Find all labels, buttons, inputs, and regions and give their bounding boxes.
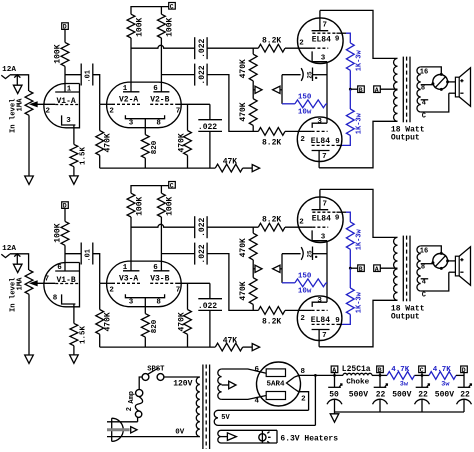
svg-text:.022: .022 — [198, 38, 207, 57]
resistor 470K lower EL84 grid (ch1) — [239, 99, 257, 132]
wire V2-B grid (ch1) — [176, 103, 210, 105]
choke L25C1a — [342, 365, 372, 387]
svg-text:7: 7 — [322, 153, 327, 161]
transformer power core — [203, 365, 210, 450]
svg-text:4: 4 — [422, 100, 426, 108]
transformer HT secondary — [218, 369, 222, 399]
svg-text:100K: 100K — [135, 196, 144, 215]
capacitor 25 cathode bypass (ch2) — [282, 247, 327, 261]
wire V3-B grid (ch2) — [176, 282, 210, 284]
switch SPST — [142, 365, 165, 380]
svg-text:V1-B: V1-B — [57, 276, 76, 285]
resistor 1.5K V1-A cathode (ch1) — [70, 125, 87, 176]
svg-text:1: 1 — [67, 85, 72, 93]
svg-text:Choke: Choke — [346, 378, 369, 386]
svg-text:9: 9 — [335, 215, 340, 223]
svg-text:10w: 10w — [298, 288, 312, 296]
svg-text:3: 3 — [129, 119, 134, 127]
svg-text:.022: .022 — [198, 65, 207, 84]
wire lower screen (ch2) — [337, 323, 343, 325]
svg-text:.01: .01 — [84, 249, 92, 262]
svg-text:100K: 100K — [135, 17, 144, 36]
wire HT top to 5AR4 pin 6 — [222, 366, 267, 374]
wire cathode bus (ch2) — [326, 241, 328, 303]
wire upper plate to transformer (ch2) — [320, 189, 398, 237]
svg-text:2: 2 — [300, 136, 305, 144]
transformer output primary (ch2) — [394, 237, 398, 300]
svg-text:500V: 500V — [392, 390, 411, 399]
wire .01 to V3-A grid (ch2) — [93, 254, 100, 284]
svg-text:6: 6 — [57, 264, 62, 272]
wire to lower grid (ch2) — [207, 254, 258, 311]
wire lower plate to transformer (ch1) — [319, 121, 397, 168]
svg-text:470K: 470K — [239, 238, 248, 257]
svg-text:7: 7 — [45, 276, 50, 284]
wire to upper grid (ch2) — [207, 226, 258, 228]
svg-text:150: 150 — [298, 273, 312, 281]
resistor 1.5K V1-B cathode (ch2) — [70, 304, 87, 355]
node B (ch2) — [358, 265, 365, 273]
resistor 1K-3W lower screen (ch2) — [342, 268, 363, 324]
resistor 100K V1-A plate (ch1) — [53, 42, 69, 66]
ground arrow pair (ch2) — [253, 265, 282, 272]
wire filter ground rail — [335, 412, 465, 414]
node 12A input label (ch1) — [2, 66, 16, 74]
speaker (ch2) — [449, 247, 471, 285]
svg-text:2: 2 — [299, 219, 304, 227]
node A (ch1) — [374, 86, 381, 94]
resistor 820 V3-A cathode (ch2) — [141, 298, 159, 347]
svg-text:16: 16 — [420, 68, 428, 76]
wire plate A to upper coupling cap (hop over) (ch1) — [131, 45, 195, 48]
wire 4 ohm tap (ch2) — [421, 279, 429, 287]
svg-text:3: 3 — [317, 297, 322, 305]
svg-text:25: 25 — [306, 71, 313, 79]
resistor 150 10W cathode (ch2) — [282, 254, 327, 296]
svg-text:EL84: EL84 — [311, 137, 330, 146]
transformer core (ch1) — [403, 57, 410, 123]
capacitor 22 filter D — [457, 384, 472, 412]
pentode EL84 upper (ch1) — [298, 10, 344, 63]
svg-text:470K: 470K — [104, 133, 113, 152]
capacitor .022 lower coupling (ch1) — [195, 64, 207, 86]
wire plate A to upper coupling cap (hop over) (ch2) — [131, 224, 195, 227]
wire plate column (ch1) — [65, 66, 81, 92]
svg-text:1: 1 — [123, 264, 128, 272]
resistor 47K feedback (ch2) — [215, 336, 252, 351]
svg-text:Output: Output — [391, 313, 420, 322]
resistor 150 10W cathode (ch1) — [282, 75, 327, 117]
svg-text:2: 2 — [109, 286, 114, 294]
ground (supply) — [330, 414, 339, 422]
resistor 470K lower EL84 grid (ch2) — [239, 278, 257, 311]
svg-text:1K-3w: 1K-3w — [355, 228, 363, 250]
svg-text:2: 2 — [126, 407, 134, 411]
feedback arrow (ch2) — [252, 344, 259, 351]
node A (ch2) — [374, 265, 381, 273]
resistor 4.7K 3W first — [372, 366, 429, 389]
svg-text:500V: 500V — [435, 390, 454, 399]
wire B+ rail — [299, 374, 343, 377]
capacitor 22 500V filter C — [415, 384, 455, 412]
wire (ch2) — [64, 208, 66, 221]
node A (supply) — [331, 366, 338, 387]
ground arrow at input (ch1) — [13, 75, 22, 94]
feedback arrow (ch1) — [252, 165, 259, 172]
wire node C to plate resistors (ch2) — [131, 186, 169, 194]
svg-text:V2-A: V2-A — [119, 95, 138, 104]
svg-text:.022: .022 — [198, 302, 217, 311]
svg-text:9: 9 — [335, 36, 340, 44]
svg-text:EL84: EL84 — [312, 35, 331, 44]
svg-text:22: 22 — [460, 390, 470, 399]
svg-text:7: 7 — [323, 200, 328, 208]
svg-text:1K-3w: 1K-3w — [355, 49, 363, 71]
wire lower plate to transformer (ch2) — [319, 300, 397, 347]
transformer 6.3V winding — [218, 430, 277, 443]
svg-text:C: C — [170, 3, 174, 10]
svg-text:.022: .022 — [198, 123, 217, 132]
svg-text:470K: 470K — [178, 133, 187, 152]
wire cathode bus (ch1) — [326, 62, 328, 123]
svg-text:2: 2 — [46, 107, 51, 115]
wire (ch1) — [64, 29, 66, 42]
svg-text:820: 820 — [151, 140, 159, 154]
resistor 100K V3-B plate (ch2) — [158, 193, 175, 217]
wire screen supply to node B (ch2) — [349, 267, 358, 270]
svg-text:8.2K: 8.2K — [262, 317, 281, 326]
resistor 1K-3W upper screen (ch2) — [346, 212, 363, 268]
svg-text:L25C1a: L25C1a — [342, 365, 371, 374]
text 18 Watt Output (ch1) — [391, 126, 425, 143]
capacitor .01 coupling (ch1) — [81, 64, 93, 86]
node C (ch1) — [169, 3, 176, 11]
svg-text:9: 9 — [335, 317, 340, 325]
wire 16 ohm tap (ch1) — [420, 67, 442, 77]
svg-text:1K-3w: 1K-3w — [355, 291, 363, 313]
svg-text:.022: .022 — [198, 244, 207, 263]
svg-text:470K: 470K — [239, 102, 248, 121]
transformer output secondary (ch2) — [417, 246, 421, 291]
svg-text:9: 9 — [335, 138, 340, 146]
capacitor .022 V2-B grid (ch1) — [198, 104, 222, 168]
pentode EL84 upper (ch2) — [298, 189, 344, 242]
wire 5AR4 pin 2 to 5V winding — [299, 392, 309, 411]
svg-text:B: B — [359, 266, 363, 273]
svg-text:470K: 470K — [178, 312, 187, 331]
ground (ch1) — [70, 176, 79, 184]
svg-text:7: 7 — [323, 21, 328, 29]
svg-text:V3-A: V3-A — [119, 274, 138, 283]
wire V3-A plate column (ch2) — [130, 217, 132, 271]
svg-text:470K: 470K — [104, 312, 113, 331]
svg-text:25: 25 — [306, 250, 313, 258]
svg-text:2: 2 — [301, 396, 306, 404]
svg-text:C: C — [422, 292, 426, 300]
resistor 1K-3W lower screen (ch1) — [342, 89, 363, 145]
capacitor .022 upper coupling (ch2) — [195, 216, 207, 238]
potentiometer In level 1MA (ch2) — [10, 270, 37, 312]
output jack (ch2) — [431, 252, 455, 270]
wire upper screen (ch1) — [337, 32, 347, 34]
pentode EL84 lower (ch1) — [297, 117, 342, 168]
text 6.3V Heaters — [280, 434, 338, 443]
transformer power primary — [173, 377, 200, 437]
resistor 47K feedback (ch1) — [215, 157, 252, 172]
resistor 4.7K 3W second — [429, 366, 464, 389]
svg-text:470K: 470K — [239, 59, 248, 78]
svg-text:12A: 12A — [2, 245, 16, 253]
svg-text:3: 3 — [317, 118, 322, 126]
output jack (ch1) — [431, 73, 455, 91]
svg-text:C: C — [422, 113, 426, 121]
wire node A to transformer center tap (ch1) — [380, 88, 397, 90]
HT center tap ground arrow — [222, 381, 236, 389]
svg-text:V2-B: V2-B — [150, 95, 169, 104]
resistor 100K V2-B plate (ch1) — [158, 14, 175, 38]
capacitor .022 lower coupling (ch2) — [195, 243, 207, 265]
transformer 5V winding — [214, 375, 315, 425]
svg-text:3w: 3w — [400, 381, 409, 389]
6.3V center tap ground arrow — [227, 433, 236, 441]
wire V2-A plate column (ch1) — [130, 38, 132, 92]
svg-text:1K-3w: 1K-3w — [355, 112, 363, 134]
svg-text:22: 22 — [418, 390, 428, 399]
svg-text:12A: 12A — [2, 66, 16, 74]
svg-text:3: 3 — [66, 117, 71, 125]
capacitor .01 coupling (ch2) — [81, 243, 93, 265]
svg-text:4: 4 — [422, 279, 426, 287]
wire node A to transformer center tap (ch2) — [380, 267, 397, 269]
transformer output primary (ch1) — [394, 58, 398, 121]
AC plug — [107, 418, 200, 441]
svg-text:8: 8 — [421, 84, 425, 92]
svg-text:100K: 100K — [53, 44, 62, 63]
svg-text:C: C — [170, 182, 174, 189]
svg-text:5AR4: 5AR4 — [267, 380, 286, 388]
potentiometer In level 1MA (ch1) — [10, 91, 37, 133]
resistor 470K upper EL84 grid (ch2) — [239, 227, 257, 278]
svg-text:6.3V Heaters: 6.3V Heaters — [280, 434, 338, 443]
svg-text:8: 8 — [156, 119, 161, 127]
svg-text:2: 2 — [300, 315, 305, 323]
svg-text:1.5K: 1.5K — [79, 146, 87, 165]
wire to lower grid (ch1) — [207, 75, 258, 132]
svg-text:100K: 100K — [166, 196, 175, 215]
resistor 8.2K upper grid stopper (ch2) — [258, 216, 312, 232]
svg-text:6: 6 — [153, 85, 158, 93]
node C (supply) — [419, 366, 426, 387]
node D (ch2) — [62, 202, 69, 210]
svg-text:1.5K: 1.5K — [79, 325, 87, 344]
svg-text:3: 3 — [321, 55, 326, 63]
wire pot to ground (ch1) — [28, 115, 30, 176]
svg-text:.022: .022 — [198, 217, 207, 236]
wire pot wiper to V1-A grid (ch1) — [37, 103, 55, 105]
rectifier 5AR4 — [257, 362, 307, 406]
node D (supply) — [461, 366, 468, 387]
wire input to pot (ch2) — [10, 254, 29, 270]
pentode EL84 lower (ch2) — [297, 296, 342, 347]
wire .01 to V2-A grid (ch1) — [93, 75, 100, 105]
svg-text:8.2K: 8.2K — [262, 138, 281, 147]
wire upper screen (ch2) — [337, 211, 347, 213]
svg-text:0V: 0V — [175, 429, 185, 437]
wire V2-B plate column (ch1) — [161, 38, 194, 92]
svg-text:A: A — [375, 87, 379, 94]
node 12A input label (ch2) — [2, 245, 16, 253]
wire V3-B plate column (ch2) — [161, 217, 194, 271]
text 18 Watt Output (ch2) — [391, 305, 425, 322]
svg-text:820: 820 — [151, 319, 159, 333]
resistor 1K-3W upper screen (ch1) — [346, 33, 363, 89]
node D (ch1) — [62, 23, 69, 31]
wire fuse to switch — [139, 377, 142, 389]
wire C tap (ch1) — [421, 93, 449, 120]
svg-text:V3-B: V3-B — [150, 274, 169, 283]
svg-text:7: 7 — [176, 286, 181, 294]
transformer output secondary (ch1) — [417, 67, 421, 112]
svg-text:7: 7 — [176, 107, 181, 115]
wire HT bottom to 5AR4 pin 4 — [222, 396, 267, 406]
svg-text:16: 16 — [420, 247, 428, 255]
resistor 470K V3-B grid (ch2) — [178, 283, 192, 347]
ground (ch2) — [70, 355, 79, 363]
dual triode V3-A/V3-B (ch2) — [107, 261, 182, 307]
svg-text:5V: 5V — [221, 414, 230, 422]
triode V1-B (ch2) — [44, 263, 80, 307]
wire grid (ch2) — [100, 282, 112, 284]
svg-text:8: 8 — [421, 263, 425, 271]
resistor 8.2K lower grid stopper (ch2) — [258, 307, 311, 327]
svg-text:V1-A: V1-A — [57, 97, 76, 106]
wire pot wiper to V1-B grid (ch2) — [37, 282, 55, 284]
wire 8 ohm tap (ch2) — [421, 263, 433, 271]
svg-text:2: 2 — [109, 107, 114, 115]
wire pot to ground (ch2) — [28, 294, 30, 355]
wire node C to plate resistors (ch1) — [131, 7, 169, 15]
dual triode V2-A/V2-B (ch1) — [107, 82, 182, 128]
resistor 820 V2-A cathode (ch1) — [141, 119, 159, 168]
svg-text:150: 150 — [298, 94, 312, 102]
wire ground bus (ch2) — [100, 346, 216, 348]
resistor 470K upper EL84 grid (ch1) — [239, 48, 257, 98]
input jack (ch1) — [1, 75, 9, 78]
wire 8 ohm tap (ch1) — [421, 84, 433, 92]
wire 4 ohm tap (ch1) — [421, 100, 429, 108]
resistor 8.2K upper grid stopper (ch1) — [258, 37, 312, 53]
svg-text:4: 4 — [255, 397, 260, 405]
svg-text:3: 3 — [321, 234, 326, 242]
ground arrow pair (ch1) — [253, 86, 282, 93]
wire to upper grid (ch1) — [207, 47, 258, 49]
svg-text:Amp: Amp — [128, 391, 136, 404]
node B (supply) — [377, 366, 384, 387]
svg-text:8: 8 — [53, 295, 58, 303]
svg-text:120V: 120V — [173, 379, 192, 388]
svg-text:6: 6 — [153, 264, 158, 272]
svg-text:EL84: EL84 — [312, 214, 331, 223]
node B (ch1) — [358, 86, 365, 94]
ground (ch2) — [25, 355, 34, 363]
wire ground bus (ch1) — [100, 167, 216, 169]
svg-text:50: 50 — [329, 390, 339, 399]
resistor 8.2K lower grid stopper (ch1) — [258, 128, 311, 148]
svg-text:8: 8 — [156, 298, 161, 306]
ground (ch1) — [25, 176, 34, 184]
svg-text:1: 1 — [123, 85, 128, 93]
fuse 2 Amp — [126, 389, 143, 421]
transformer core (ch2) — [403, 236, 410, 302]
capacitor .022 upper coupling (ch1) — [195, 37, 207, 59]
resistor 100K V3-A plate (ch2) — [127, 193, 144, 217]
wire lower screen (ch1) — [337, 144, 343, 146]
ground arrow at input (ch2) — [13, 254, 22, 273]
resistor 470K V2-B grid (ch1) — [178, 104, 192, 168]
resistor 100K V1-B plate (ch2) — [53, 221, 69, 245]
wire upper plate to transformer (ch1) — [320, 10, 398, 58]
speaker (ch1) — [449, 68, 471, 107]
svg-text:22: 22 — [376, 390, 386, 399]
svg-text:B: B — [359, 87, 363, 94]
capacitor 22 500V filter B — [373, 384, 412, 412]
resistor 470K V2-A grid (ch1) — [96, 104, 113, 168]
svg-text:10w: 10w — [298, 109, 312, 117]
svg-text:1MA: 1MA — [17, 277, 25, 291]
wire plate column (ch2) — [65, 245, 81, 271]
svg-text:.01: .01 — [84, 70, 92, 83]
svg-text:100K: 100K — [166, 17, 175, 36]
svg-text:SPST: SPST — [147, 365, 165, 373]
input jack (ch2) — [1, 254, 9, 257]
node C (ch2) — [169, 182, 176, 190]
wire C tap (ch2) — [421, 272, 449, 299]
resistor 470K V3-A grid (ch2) — [96, 283, 113, 347]
svg-text:Output: Output — [391, 134, 420, 143]
svg-text:EL84: EL84 — [311, 316, 330, 325]
resistor 100K V2-A plate (ch1) — [127, 14, 144, 38]
svg-text:470K: 470K — [239, 281, 248, 300]
svg-text:500V: 500V — [349, 390, 368, 399]
svg-text:3: 3 — [129, 298, 134, 306]
svg-text:3w: 3w — [441, 381, 450, 389]
wire switch to transformer — [164, 376, 200, 378]
svg-text:1MA: 1MA — [17, 98, 25, 112]
pilot lamp — [259, 430, 271, 443]
triode V1-A (ch1) — [44, 83, 80, 127]
wire input to pot (ch1) — [10, 75, 29, 91]
wire 16 ohm tap (ch2) — [420, 246, 442, 256]
capacitor .022 V3-B grid (ch2) — [198, 283, 222, 347]
wire grid (ch1) — [100, 103, 112, 105]
svg-text:2: 2 — [299, 40, 304, 48]
svg-text:100K: 100K — [53, 223, 62, 242]
svg-text:7: 7 — [322, 332, 327, 340]
svg-text:A: A — [375, 266, 379, 273]
capacitor 25 cathode bypass (ch1) — [282, 68, 327, 82]
wire screen supply to node B (ch1) — [349, 88, 358, 91]
capacitor 50 500V filter — [327, 384, 368, 412]
